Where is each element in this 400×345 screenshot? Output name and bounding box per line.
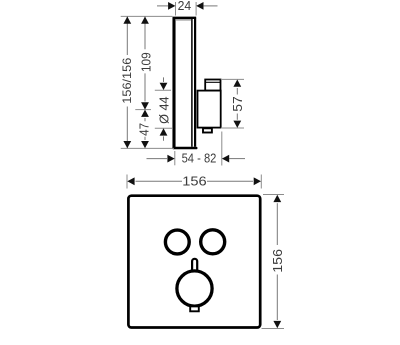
dimension D44: upper leader + arrow (points down) <box>163 77 165 82</box>
dimension 156 top: left arrow <box>127 177 134 185</box>
svg-text:Ø 44: Ø 44 <box>157 96 171 124</box>
dimension 57: line lower segment <box>236 114 238 120</box>
dimension 57: upper extension line <box>221 78 244 80</box>
dimension D44: lower leader + arrow (points up) <box>163 136 165 140</box>
dimension D44: upper extension line <box>155 89 171 91</box>
dimension 54-82: left leader line <box>147 158 168 160</box>
dimension 57: top arrow <box>233 80 241 87</box>
svg-text:156/156: 156/156 <box>120 57 134 103</box>
svg-text:47: 47 <box>138 123 152 136</box>
svg-text:109: 109 <box>139 52 153 72</box>
dimension 47: line upper stub <box>144 118 146 121</box>
dimension 54-82: right arrow <box>222 155 229 163</box>
dimension 24: right extension line <box>195 2 197 16</box>
dimension 156 right: line lower segment <box>276 275 278 321</box>
wall plate side view: wall line (right edge) <box>194 19 196 147</box>
dimension 156 top: right arrow <box>254 177 261 185</box>
dimension 156/156: bottom arrow <box>123 141 131 148</box>
svg-text:54 - 82: 54 - 82 <box>182 152 217 166</box>
dimension 156 top: left extension line <box>126 175 128 189</box>
dimension 156 top: line right segment <box>207 180 253 182</box>
dimension 109: line upper segment <box>144 16 146 49</box>
wall plate side view: inner top thin line <box>176 19 191 21</box>
handle side view: main body <box>198 91 221 128</box>
wall plate side view: front face (thick left edge) <box>172 17 175 148</box>
side view: bottom extension line to left dims <box>121 147 174 149</box>
dimension 24: right leader line <box>204 5 218 7</box>
dimension 156/156: line upper segment <box>126 16 128 55</box>
dimension 156 right: bottom extension line <box>262 328 285 330</box>
dimension 156 right: top extension line <box>263 194 284 196</box>
dimension 156 right: top arrow <box>273 195 281 202</box>
dimension 54-82: left arrow <box>167 155 174 163</box>
dimension 24: right arrow <box>196 2 203 10</box>
dimension 109: line lower segment <box>144 73 146 101</box>
dimension 24: left extension line <box>175 2 177 16</box>
dimension 54-82: left extension line <box>174 151 176 165</box>
dimension 109: top arrow <box>141 17 149 24</box>
handle side view: top step <box>205 80 220 91</box>
dimension 156/156: line lower segment <box>126 107 128 149</box>
thermostat handle stop tab (bottom) <box>190 306 199 311</box>
svg-text:156: 156 <box>182 175 206 189</box>
dimension 54-82: right extension line <box>221 132 223 166</box>
left select button <box>165 230 189 254</box>
dimension 47: line lower stub <box>144 137 146 140</box>
dimension 24: left arrow <box>168 2 175 10</box>
thermostat handle (large circle) <box>177 271 212 306</box>
dimension 47: top arrow (points up to centre) <box>141 110 149 117</box>
svg-text:57: 57 <box>231 96 245 112</box>
side view: top extension line to left dims <box>121 15 173 17</box>
svg-text:24: 24 <box>178 0 192 13</box>
dimension 109: bottom arrow <box>141 102 149 109</box>
dimension 156/156: top arrow <box>123 17 131 24</box>
dimension 57: bottom arrow <box>233 121 241 128</box>
handle side view: bottom tab <box>203 128 212 132</box>
wall plate side view: bottom edge <box>174 147 197 150</box>
wall plate side view: top edge <box>173 17 197 19</box>
dimension 54-82: right leader line <box>229 158 245 160</box>
wall plate side view: inner right line <box>191 19 193 147</box>
dimension 57: lower extension line <box>221 127 244 129</box>
dimension 156 top: line left segment <box>136 180 183 182</box>
dimension 47: bottom arrow <box>141 141 149 148</box>
dimension 156 right: line upper segment <box>276 203 278 245</box>
dimension 156 top: right extension line <box>260 175 262 189</box>
handle side view: top step seam line <box>205 81 220 83</box>
svg-text:156: 156 <box>271 249 285 273</box>
right select button <box>201 230 225 254</box>
dimension 156 right: bottom arrow <box>273 321 281 328</box>
dimension D44: lower extension line <box>155 127 172 129</box>
thermostat handle index tab (top) <box>192 259 197 272</box>
dimension 24: left leader line <box>157 5 168 7</box>
escutcheon plate front view <box>128 196 260 328</box>
side view: centre tick at valve axis <box>135 109 151 111</box>
dimension 57: line upper segment <box>236 88 238 95</box>
